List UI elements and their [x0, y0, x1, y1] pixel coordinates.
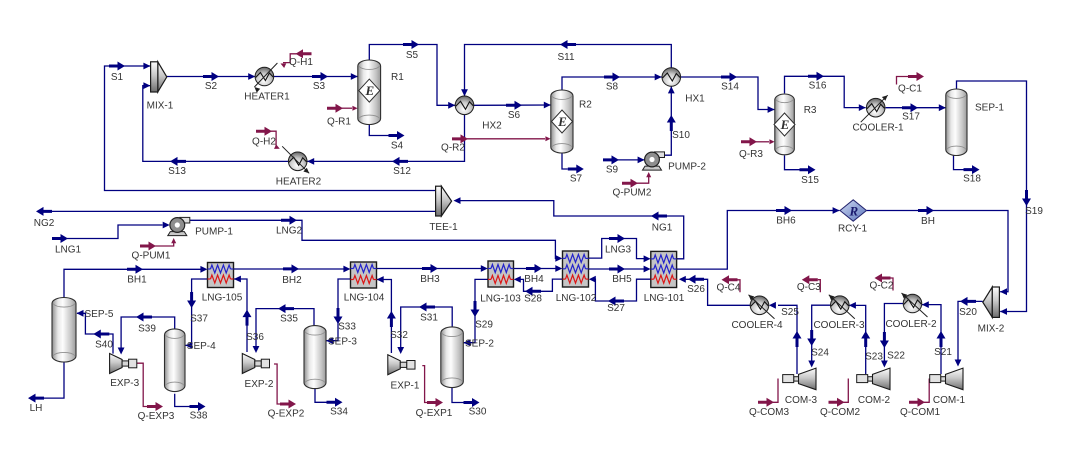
svg-text:BH4: BH4 [524, 274, 544, 285]
flow arrow S17 [902, 103, 918, 112]
flow arrow BH2 [283, 264, 299, 273]
cooler COOLER-3 [831, 296, 850, 315]
svg-text:E: E [364, 83, 374, 98]
heat stream Q-R3 [756, 141, 769, 143]
svg-text:HX1: HX1 [685, 94, 705, 105]
heat stream Q-R2 [467, 138, 545, 140]
lng-exchanger LNG-105 [208, 263, 234, 288]
svg-text:S15: S15 [801, 175, 819, 186]
svg-text:R3: R3 [804, 105, 817, 116]
flow arrow S8 [604, 73, 620, 82]
svg-text:Q-H2: Q-H2 [252, 137, 276, 148]
svg-text:SEP-1: SEP-1 [975, 103, 1004, 114]
svg-text:S40: S40 [95, 340, 113, 351]
work stream Q-COM1 [924, 379, 929, 403]
wire S31 (SEP-2 to EXP-1) [401, 307, 453, 352]
svg-text:S27: S27 [607, 303, 625, 314]
flow arrow S39 [136, 313, 152, 322]
heat-exchanger HX1 [662, 68, 681, 87]
work stream Q-EXP1 [422, 366, 427, 403]
wire S18 (SEP-1 bottom product) [954, 155, 964, 169]
wire S26 (COOLER-4 to LNG-101) [683, 279, 751, 305]
wire LNG2 (PUMP-1 to LNG-102) [190, 220, 558, 258]
heat stream Q-C4 [738, 280, 741, 293]
wire S7 (R2 bottom product) [562, 153, 568, 169]
wire BH6 (LNG-101 to RCY-1) [677, 211, 840, 270]
flow arrow S35 [278, 304, 294, 313]
svg-text:COOLER-2: COOLER-2 [885, 319, 937, 330]
svg-text:S14: S14 [721, 82, 739, 93]
wire LH (SEP-5 bottom product) [43, 362, 65, 398]
svg-text:BH: BH [921, 216, 935, 227]
heat-exchanger HX2 [455, 96, 474, 115]
heater HEATER1 [255, 67, 274, 86]
svg-text:S1: S1 [111, 72, 124, 83]
flow arrow BH3 [422, 264, 438, 273]
wire S10 (PUMP-2 to HX1) [665, 86, 671, 155]
flow arrow S40 [93, 330, 109, 339]
flow arrow LH [28, 394, 44, 403]
flow arrow S11 [560, 40, 576, 49]
wire S25 (COM-3 to COOLER-4) [778, 305, 797, 374]
flow arrow S28 [525, 287, 541, 296]
separator SEP-2 [441, 327, 464, 388]
wire S3 (HEATER1 to R1) [274, 76, 358, 78]
cooler COOLER-2 [903, 294, 922, 313]
reactor R1 [358, 60, 381, 125]
svg-text:HX2: HX2 [482, 121, 502, 132]
svg-text:BH6: BH6 [776, 216, 796, 227]
svg-text:NG1: NG1 [652, 223, 673, 234]
heater HEATER2 [288, 152, 307, 171]
wire S37 (LNG-105 to SEP-4) [185, 279, 207, 345]
svg-text:LNG-101: LNG-101 [644, 293, 685, 304]
svg-text:EXP-2: EXP-2 [245, 379, 274, 390]
wire BH5 (LNG-102 to LNG-101) [589, 268, 646, 270]
flow arrow S37 [187, 292, 196, 308]
svg-text:Q-COM1: Q-COM1 [900, 407, 940, 418]
svg-text:S28: S28 [524, 294, 542, 305]
svg-text:S8: S8 [606, 82, 619, 93]
svg-text:S16: S16 [809, 81, 827, 92]
svg-text:S13: S13 [168, 166, 186, 177]
svg-text:LNG-102: LNG-102 [556, 293, 597, 304]
svg-text:S19: S19 [1025, 206, 1043, 217]
svg-text:COOLER-1: COOLER-1 [852, 123, 904, 134]
svg-text:LH: LH [30, 403, 43, 414]
wire BH2 (LNG-105 to LNG-104) [234, 268, 345, 270]
wire S19 (SEP-1 to MIX-2) [957, 81, 1027, 312]
lng-exchanger LNG-101 [651, 251, 677, 287]
heat stream Q-H1 [283, 54, 312, 63]
svg-text:TEE-1: TEE-1 [429, 222, 458, 233]
wire NG1 (LNG-101 to TEE-1) [458, 201, 684, 259]
svg-text:S4: S4 [391, 141, 404, 152]
svg-text:Q-H1: Q-H1 [289, 57, 313, 68]
wire LNG3 (LNG-102 to LNG-101) [589, 239, 646, 259]
wire S15 (R3 bottom product) [785, 155, 800, 169]
recycle RCY-1 [840, 200, 867, 221]
svg-text:LNG1: LNG1 [55, 245, 82, 256]
wire S13 (HEATER2 to MIX-1) [143, 86, 289, 162]
svg-text:MIX-1: MIX-1 [147, 101, 174, 112]
wire S33 (LNG-104 to SEP-3) [326, 279, 350, 341]
flow arrow S33 [334, 308, 343, 324]
svg-text:Q-R3: Q-R3 [739, 149, 763, 160]
svg-text:SEP-2: SEP-2 [465, 338, 494, 349]
wire S27 (LNG-101 to LNG-102) [591, 279, 651, 301]
lng-exchanger LNG-102 [563, 251, 589, 287]
compressor COM-2 [857, 368, 890, 390]
svg-text:E: E [557, 114, 567, 129]
work stream Q-COM2 [844, 379, 849, 403]
pump PUMP-1 [168, 217, 190, 235]
svg-text:S5: S5 [406, 50, 419, 61]
wire BH1 (SEP-5 to LNG-105) [64, 269, 201, 297]
flow arrow S31 [419, 303, 435, 312]
lng-exchanger LNG-103 [488, 261, 514, 287]
svg-text:E: E [780, 117, 790, 132]
flow arrow S25 [793, 331, 802, 347]
flow arrow S24 [807, 330, 816, 346]
svg-text:COM-3: COM-3 [785, 395, 818, 406]
flow arrow LNG2 [281, 216, 297, 225]
wire S14 (HX1 to R3) [681, 77, 775, 110]
svg-text:S10: S10 [672, 130, 690, 141]
wire S9 (feed to PUMP-2) [618, 159, 644, 161]
wire S36 (EXP-2 to LNG-105) [234, 279, 247, 352]
svg-text:S38: S38 [190, 411, 208, 422]
svg-text:SEP-5: SEP-5 [85, 309, 114, 320]
svg-text:HEATER1: HEATER1 [244, 92, 290, 103]
svg-text:Q-PUM2: Q-PUM2 [613, 188, 652, 199]
wire S32 (EXP-1 to LNG-104) [377, 280, 392, 354]
flow arrow S16 [808, 72, 824, 81]
svg-text:LNG3: LNG3 [605, 245, 632, 256]
heat stream Q-H2 [270, 131, 276, 146]
svg-text:S2: S2 [205, 81, 218, 92]
wire S2 (MIX-1 to HEATER1) [167, 76, 255, 78]
flow arrow S19 [1022, 190, 1031, 206]
svg-text:NG2: NG2 [34, 218, 55, 229]
svg-text:LNG2: LNG2 [276, 226, 303, 237]
flow arrow S23 [861, 331, 870, 347]
work stream Q-EXP2 [274, 364, 280, 404]
svg-text:Q-R1: Q-R1 [327, 117, 351, 128]
flow arrow S15 [800, 165, 816, 174]
flow arrow S21 [937, 331, 946, 347]
flow arrow S6 [506, 101, 522, 110]
svg-text:BH3: BH3 [420, 274, 440, 285]
flow arrow LNG3 [609, 234, 625, 243]
flow arrow NG1 [651, 212, 667, 221]
wire S11 (HX1 to HX2) [465, 45, 672, 97]
svg-text:Q-EXP1: Q-EXP1 [416, 408, 453, 419]
flow arrow BH [918, 206, 934, 215]
svg-text:PUMP-2: PUMP-2 [668, 162, 706, 173]
flow arrow S10 [667, 115, 676, 131]
wire S30 (SEP-2 bottom product) [452, 387, 464, 402]
flow arrow S4 [389, 131, 405, 140]
svg-text:S9: S9 [606, 165, 619, 176]
cooler COOLER-1 [866, 98, 885, 117]
svg-text:S25: S25 [781, 307, 799, 318]
heat stream Q-C1 [897, 77, 909, 85]
expander EXP-1 [388, 355, 415, 375]
flow arrow S20 [960, 297, 976, 306]
svg-text:Q-EXP2: Q-EXP2 [268, 409, 305, 420]
svg-text:S6: S6 [508, 110, 521, 121]
svg-text:COM-2: COM-2 [858, 395, 891, 406]
compressor COM-1 [930, 368, 963, 390]
svg-text:SEP-4: SEP-4 [187, 341, 216, 352]
svg-text:Q-COM2: Q-COM2 [820, 407, 860, 418]
wire S16 (R3 to COOLER-1) [785, 76, 866, 107]
wire S17 (COOLER-1 to SEP-1) [886, 107, 946, 109]
svg-text:SEP-3: SEP-3 [328, 336, 357, 347]
wire BH (RCY-1 to MIX-2) [867, 211, 1008, 292]
work stream Q-PUM1 [155, 242, 174, 247]
svg-text:Q-C4: Q-C4 [717, 282, 741, 293]
svg-text:S26: S26 [687, 284, 705, 295]
wire S35 (SEP-3 to EXP-2) [256, 309, 314, 351]
wire S24 (COOLER-3 to COM-3) [812, 305, 831, 365]
flow arrow S22 [880, 332, 889, 348]
svg-text:S30: S30 [469, 407, 487, 418]
svg-text:S11: S11 [557, 52, 574, 63]
heat stream Q-C2 [891, 278, 894, 291]
svg-text:S34: S34 [330, 407, 348, 418]
separator SEP-5 [52, 298, 76, 363]
flow arrow S2 [203, 72, 219, 81]
separator SEP-1 [946, 89, 967, 156]
cooler COOLER-4 [750, 296, 769, 315]
svg-text:S37: S37 [190, 314, 208, 325]
flow arrow S14 [721, 73, 737, 82]
svg-text:LNG-104: LNG-104 [344, 293, 385, 304]
svg-text:R1: R1 [391, 72, 404, 83]
work stream Q-COM3 [773, 379, 778, 403]
svg-text:EXP-3: EXP-3 [110, 378, 139, 389]
separator SEP-3 [304, 326, 326, 389]
flow arrow BH4 [526, 264, 542, 273]
svg-text:S20: S20 [959, 307, 977, 318]
splitter TEE-1 [436, 186, 452, 216]
flow arrow S12 [392, 157, 408, 166]
svg-text:MIX-2: MIX-2 [978, 324, 1005, 335]
svg-text:COOLER-4: COOLER-4 [731, 320, 783, 331]
svg-text:Q-EXP3: Q-EXP3 [138, 411, 175, 422]
wire LNG1 (feed to PUMP-1) [67, 225, 163, 239]
svg-text:R: R [848, 204, 858, 219]
wire S28 (LNG-102 to LNG-103) [520, 279, 563, 291]
svg-text:BH5: BH5 [612, 274, 632, 285]
flow arrow LNG1 [52, 234, 68, 243]
svg-text:Q-COM3: Q-COM3 [749, 407, 789, 418]
svg-text:LNG-103: LNG-103 [480, 294, 521, 305]
separator SEP-4 [165, 329, 186, 392]
flow arrow S27 [608, 297, 624, 306]
flow arrow S18 [964, 165, 980, 174]
svg-text:S17: S17 [902, 112, 920, 123]
svg-text:S21: S21 [934, 347, 952, 358]
wire BH3 (LNG-104 to LNG-103) [377, 268, 482, 270]
svg-text:Q-R2: Q-R2 [441, 143, 465, 154]
svg-text:S3: S3 [313, 81, 326, 92]
reactor R3 [775, 94, 795, 155]
work stream Q-PUM2 [637, 175, 649, 184]
svg-text:S31: S31 [420, 313, 438, 324]
svg-text:S39: S39 [138, 324, 156, 335]
flow arrow S1 [109, 62, 125, 71]
svg-text:S24: S24 [811, 348, 829, 359]
svg-text:S7: S7 [570, 174, 583, 185]
lng-exchanger LNG-104 [351, 262, 377, 288]
flow arrow S9 [603, 155, 619, 164]
svg-text:R2: R2 [579, 100, 592, 111]
flow arrow BH6 [776, 206, 792, 215]
flow arrow S36 [243, 310, 252, 326]
flow arrow S26 [688, 275, 704, 284]
wire S8 (R2 to HX1) [562, 77, 662, 90]
wire S34 (SEP-3 bottom product) [315, 389, 327, 403]
wire S20 (MIX-2 to COM-1) [958, 301, 983, 364]
svg-text:S32: S32 [390, 330, 408, 341]
expander EXP-3 [110, 354, 137, 374]
svg-text:S22: S22 [887, 351, 905, 362]
flow arrow S5 [403, 40, 419, 49]
svg-text:LNG-105: LNG-105 [202, 293, 243, 304]
svg-text:BH2: BH2 [282, 275, 302, 286]
flow arrow BH5 [609, 265, 625, 274]
flow arrow BH1 [127, 265, 143, 274]
wire S12 (HX2 to HEATER2) [307, 115, 465, 162]
svg-text:COM-1: COM-1 [933, 395, 966, 406]
wire S23 (COM-2 to COOLER-3) [849, 305, 866, 374]
wire S29 (LNG-103 to SEP-2) [464, 279, 488, 342]
svg-text:RCY-1: RCY-1 [838, 224, 868, 235]
pump PUMP-2 [643, 152, 665, 170]
svg-text:PUMP-1: PUMP-1 [195, 227, 233, 238]
svg-text:HEATER2: HEATER2 [276, 177, 322, 188]
svg-text:Q-PUM1: Q-PUM1 [132, 251, 171, 262]
wire S6 (HX2 to R2) [474, 104, 551, 106]
wire BH4 (LNG-103 to LNG-102) [514, 268, 558, 270]
wire S38 (SEP-4 bottom product) [175, 394, 190, 407]
svg-text:S18: S18 [963, 174, 981, 185]
wire S22 (COOLER-2 to COM-2) [884, 304, 903, 366]
reactor R2 [551, 90, 573, 153]
svg-text:EXP-1: EXP-1 [391, 381, 420, 392]
wire NG2 (TEE-1 product) [50, 210, 436, 212]
svg-text:Q-C3: Q-C3 [797, 282, 821, 293]
wire S21 (COM-1 to COOLER-2) [922, 305, 941, 374]
svg-text:S35: S35 [280, 314, 298, 325]
svg-text:S29: S29 [475, 320, 493, 331]
flow arrow S32 [387, 311, 396, 327]
mixer MIX-2 [983, 287, 1000, 317]
heat stream Q-R1 [342, 107, 352, 109]
svg-text:Q-C2: Q-C2 [870, 281, 894, 292]
flow arrow S38 [190, 402, 206, 411]
svg-text:S12: S12 [393, 166, 411, 177]
flow arrow S3 [312, 72, 328, 81]
expander EXP-2 [242, 354, 269, 374]
flow arrow S7 [568, 165, 584, 174]
wire S40 (EXP-3 to SEP-5) [77, 313, 113, 353]
flow arrow S30 [464, 398, 480, 407]
svg-text:Q-C1: Q-C1 [898, 84, 922, 95]
mixer MIX-1 [151, 62, 167, 92]
heat stream Q-C3 [818, 280, 821, 293]
svg-text:COOLER-3: COOLER-3 [813, 320, 865, 331]
flow arrow NG2 [36, 207, 52, 216]
flow arrow S34 [327, 398, 343, 407]
wire S4 (R1 bottom product) [369, 125, 388, 136]
svg-text:S36: S36 [246, 332, 264, 343]
wire S5 (R1 to HX2) [369, 45, 455, 106]
compressor COM-3 [783, 368, 816, 390]
svg-text:BH1: BH1 [127, 275, 147, 286]
flow arrow S29 [471, 301, 480, 317]
svg-text:S23: S23 [865, 352, 883, 363]
flow arrow S13 [170, 157, 186, 166]
svg-text:S33: S33 [338, 322, 356, 333]
wire S1 (TEE-1 to MIX-1 recycle) [105, 66, 436, 191]
work stream Q-EXP3 [137, 363, 147, 406]
wire S39 (SEP-4 to EXP-3) [121, 317, 175, 352]
